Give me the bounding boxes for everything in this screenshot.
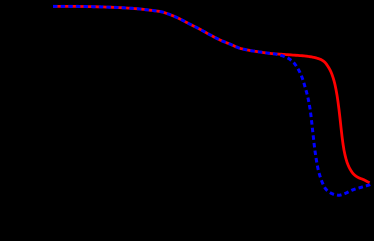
red solid curve (53, 6, 370, 182)
blue dashed curve (53, 6, 370, 195)
